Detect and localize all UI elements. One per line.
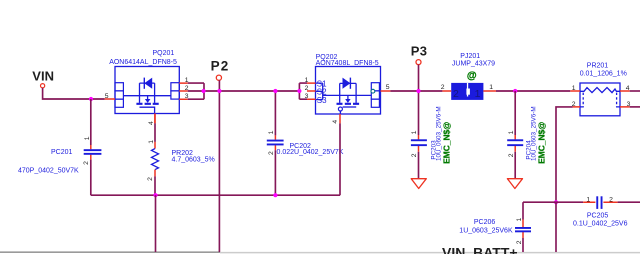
wire VIN to PQ201 pin5: [43, 88, 105, 99]
sheet partition gray line (right, lighter): [220, 252, 640, 254]
wire PR201.4 to edge: [630, 90, 640, 92]
node P3 junction: [416, 89, 420, 93]
svg-text:1: 1: [516, 217, 523, 221]
capacitor PC203: [411, 106, 451, 163]
wire main net y91: [188, 90, 300, 92]
sheet partition gray line (left, darker): [0, 251, 220, 253]
wire PC206 column: [522, 202, 524, 252]
transistor PQ202: [316, 54, 381, 114]
wire PQ202 input ladder: [299, 83, 307, 99]
pin stub PQ202.5: [381, 90, 391, 92]
wire P2 vertical: [218, 80, 220, 252]
capacitor PC204: [507, 106, 546, 163]
svg-text:2: 2: [441, 84, 445, 91]
pin stub PQ201.5: [105, 98, 115, 100]
capacitor PC202: [267, 130, 344, 155]
svg-text:2: 2: [411, 153, 418, 157]
svg-text:1: 1: [475, 88, 481, 100]
svg-text:1: 1: [148, 140, 155, 144]
svg-text:0.022U_0402_25V7K: 0.022U_0402_25V7K: [277, 149, 344, 156]
svg-text:2: 2: [508, 153, 515, 157]
pin stubs PJ201: [442, 90, 496, 92]
svg-text:PQ201: PQ201: [153, 50, 175, 57]
svg-text:@: @: [467, 71, 477, 82]
wire PC201 column: [90, 99, 92, 195]
svg-text:2: 2: [609, 196, 613, 203]
svg-text:EMC_N$@: EMC_N$@: [536, 122, 546, 164]
node VIN/PC201 junction: [89, 97, 93, 101]
capacitor PC206: [459, 217, 531, 244]
pin stubs PR201: [570, 91, 629, 107]
svg-text:2: 2: [147, 177, 154, 181]
wire PR201.2 down: [556, 107, 573, 202]
pin stubs PQ202.1-3: [307, 83, 316, 99]
power symbol (PC204): [507, 179, 522, 189]
svg-text:AON7408L_DFN8-5: AON7408L_DFN8-5: [316, 60, 379, 67]
node PC202 bus junction: [273, 193, 277, 197]
pin stubs PQ201.1-3: [179, 83, 187, 99]
node PC204 top junction: [513, 89, 517, 93]
node PC202 top junction: [273, 89, 277, 93]
svg-text:PJ201: PJ201: [460, 53, 480, 60]
node sense junction: [554, 200, 558, 204]
wire PR201.3 to edge: [630, 106, 640, 108]
svg-text:VIN_BATT+: VIN_BATT+: [442, 244, 518, 254]
wire PC204 column: [514, 91, 516, 178]
svg-text:1: 1: [268, 130, 275, 134]
svg-text:PC206: PC206: [474, 219, 496, 226]
svg-text:1: 1: [411, 130, 418, 134]
svg-text:2: 2: [453, 88, 459, 100]
pin stub PQ201.4: [154, 114, 156, 124]
wire PJ201 to PR201: [496, 90, 570, 92]
svg-text:4: 4: [332, 120, 339, 124]
port P2: [211, 59, 230, 81]
transistor PQ201: [109, 50, 179, 114]
svg-text:0.01_1206_1%: 0.01_1206_1%: [580, 71, 627, 78]
svg-text:AON6414AL_DFN8-5: AON6414AL_DFN8-5: [109, 59, 177, 66]
pin stub PQ202.4: [339, 114, 341, 123]
port VIN: [32, 69, 54, 88]
wire PR202 below bus: [155, 195, 157, 252]
svg-text:2: 2: [83, 161, 90, 165]
resistor PR202: [147, 114, 215, 196]
wire PQ201 output ladder: [188, 83, 204, 99]
wire P3/PC203 column: [418, 65, 420, 179]
svg-text:1U_0603_25V6K: 1U_0603_25V6K: [459, 228, 513, 235]
svg-text:1: 1: [508, 130, 515, 134]
node PQ202 ladder junction: [297, 89, 301, 93]
svg-text:2: 2: [268, 151, 275, 155]
svg-text:S3: S3: [317, 96, 327, 105]
svg-text:4: 4: [148, 121, 155, 125]
svg-text:470P_0402_50V7K: 470P_0402_50V7K: [18, 167, 79, 174]
svg-text:4.7_0603_5%: 4.7_0603_5%: [172, 157, 215, 164]
node P2 junction: [217, 89, 221, 93]
node PR202 bus junction: [153, 193, 157, 197]
jumper PJ201: [451, 53, 495, 100]
svg-text:1: 1: [586, 196, 590, 203]
wire PC205 to edge: [618, 201, 640, 203]
svg-text:PC205: PC205: [587, 213, 609, 220]
wire sense horizontal y202: [523, 201, 583, 203]
wire sense below: [555, 202, 557, 252]
svg-text:EMC_N$@: EMC_N$@: [441, 122, 451, 164]
capacitor PC201: [18, 136, 101, 174]
node ladder junction: [202, 89, 206, 93]
svg-text:PC201: PC201: [51, 149, 73, 156]
svg-text:5: 5: [386, 84, 390, 91]
resistor PR201: [580, 63, 627, 116]
wire PQ202 to PJ201: [390, 90, 442, 92]
svg-text:JUMP_43X79: JUMP_43X79: [452, 60, 495, 67]
svg-text:1: 1: [84, 136, 91, 140]
svg-text:0.1U_0402_25V6: 0.1U_0402_25V6: [573, 220, 628, 227]
capacitor PC205: [573, 196, 628, 227]
wire ground bus y195: [91, 123, 340, 195]
wire PC202 column: [274, 91, 276, 195]
power symbol (PC203): [411, 179, 426, 189]
svg-text:VIN: VIN: [32, 69, 54, 84]
svg-text:P3: P3: [411, 44, 428, 59]
svg-text:PR201: PR201: [587, 63, 609, 70]
port P3: [411, 44, 428, 65]
svg-text:P2: P2: [211, 59, 230, 74]
svg-text:1: 1: [489, 84, 493, 91]
